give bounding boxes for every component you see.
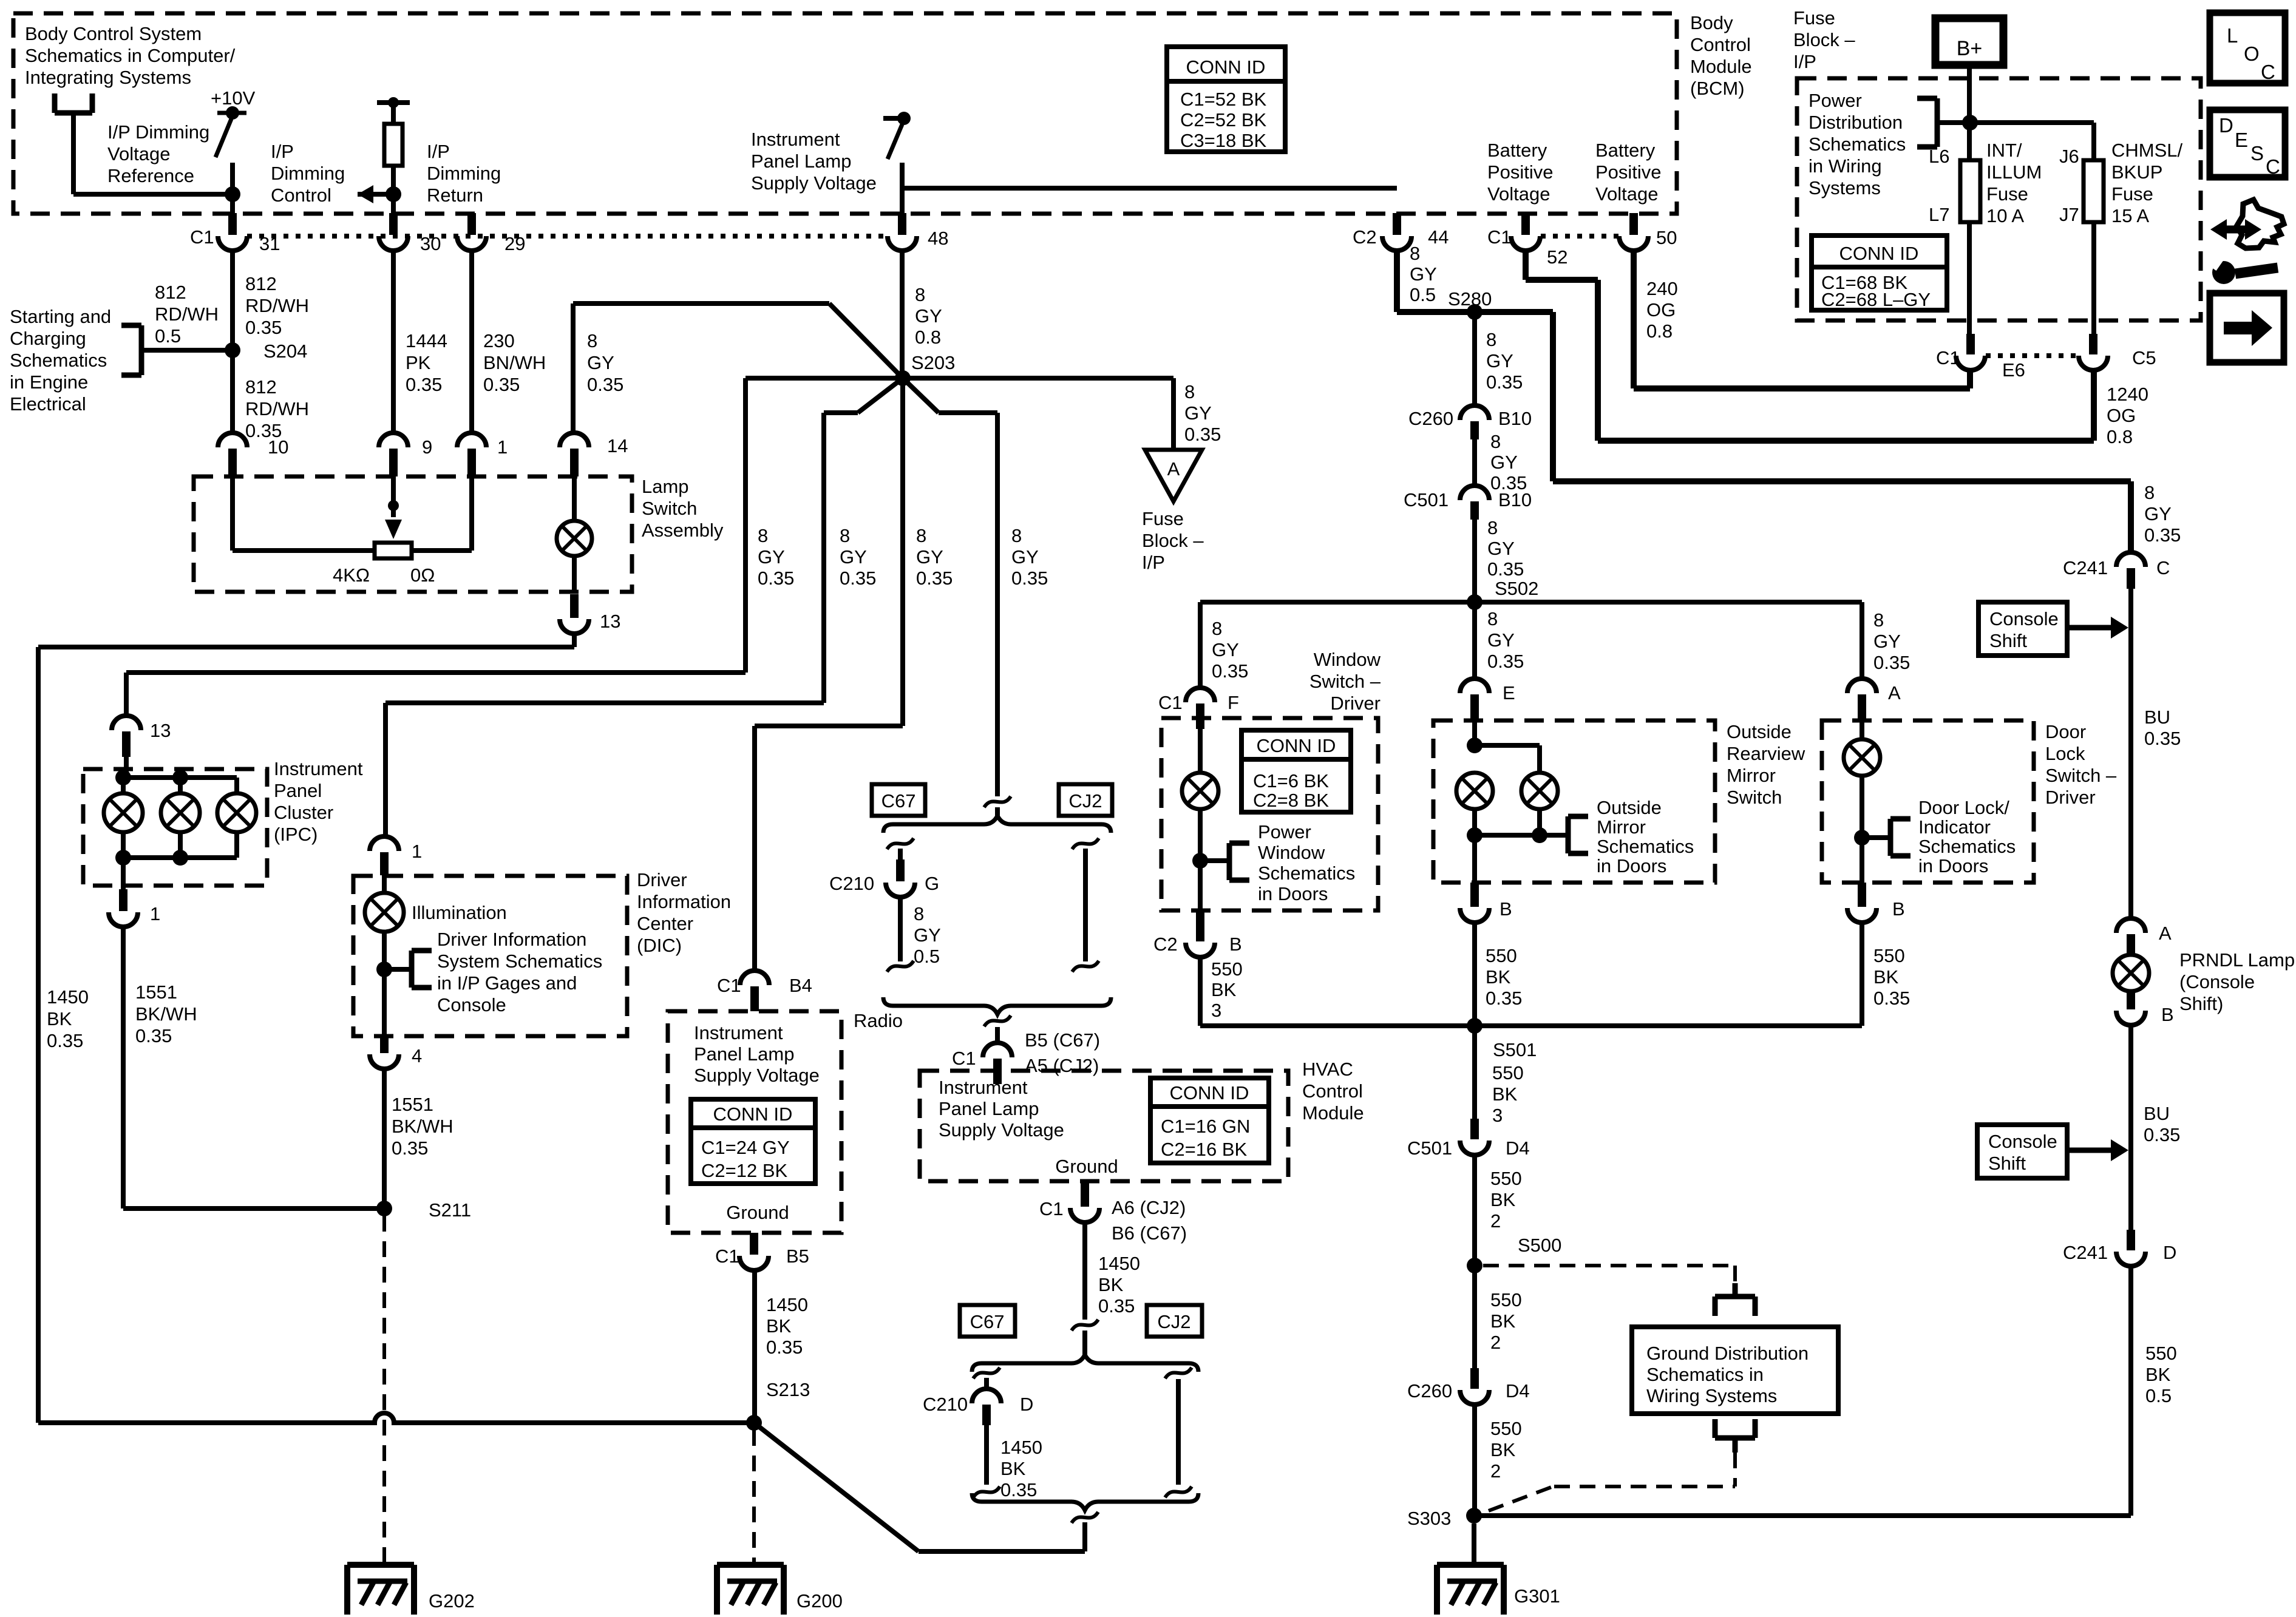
svg-text:Fuse: Fuse bbox=[1986, 183, 2028, 205]
svg-text:C210: C210 bbox=[829, 873, 874, 894]
svg-text:Fuse: Fuse bbox=[2111, 183, 2153, 205]
svg-text:Rearview: Rearview bbox=[1727, 743, 1805, 764]
svg-text:GY: GY bbox=[1212, 639, 1239, 660]
svg-text:0.8: 0.8 bbox=[1646, 320, 1673, 342]
svg-text:1: 1 bbox=[150, 903, 160, 924]
svg-text:RD/WH: RD/WH bbox=[155, 303, 219, 325]
svg-text:B6 (C67): B6 (C67) bbox=[1112, 1222, 1187, 1244]
svg-text:C: C bbox=[2156, 557, 2170, 578]
svg-text:Panel Lamp: Panel Lamp bbox=[694, 1043, 794, 1065]
svg-text:Control: Control bbox=[1302, 1080, 1363, 1102]
svg-text:Integrating Systems: Integrating Systems bbox=[25, 67, 191, 88]
svg-text:Block –: Block – bbox=[1142, 530, 1204, 551]
svg-text:C1: C1 bbox=[715, 1246, 739, 1267]
svg-text:0.35: 0.35 bbox=[406, 374, 442, 395]
svg-text:Switch –: Switch – bbox=[1309, 671, 1381, 692]
svg-text:0.35: 0.35 bbox=[1873, 652, 1910, 673]
svg-text:GY: GY bbox=[758, 546, 785, 568]
svg-text:Body: Body bbox=[1690, 12, 1733, 33]
svg-text:0.35: 0.35 bbox=[483, 374, 520, 395]
svg-text:I/P: I/P bbox=[427, 141, 450, 162]
svg-text:1: 1 bbox=[497, 436, 508, 458]
svg-text:in Doors: in Doors bbox=[1918, 855, 1988, 876]
svg-text:BK: BK bbox=[1486, 966, 1511, 988]
svg-text:BK/WH: BK/WH bbox=[392, 1116, 453, 1137]
svg-text:812: 812 bbox=[245, 376, 277, 398]
svg-text:L6: L6 bbox=[1929, 146, 1949, 167]
svg-text:in Doors: in Doors bbox=[1597, 855, 1666, 876]
svg-text:C1: C1 bbox=[190, 226, 214, 248]
svg-text:BU: BU bbox=[2144, 707, 2170, 728]
svg-text:8: 8 bbox=[1410, 243, 1420, 264]
svg-text:Fuse: Fuse bbox=[1793, 7, 1835, 29]
svg-text:Shift): Shift) bbox=[2179, 993, 2223, 1014]
svg-text:10 A: 10 A bbox=[1986, 205, 2024, 226]
svg-text:Console: Console bbox=[1988, 1131, 2057, 1152]
svg-text:1444: 1444 bbox=[406, 330, 447, 351]
svg-text:BK: BK bbox=[2145, 1364, 2171, 1385]
svg-text:GY: GY bbox=[1410, 263, 1437, 285]
svg-text:S: S bbox=[2250, 142, 2264, 164]
svg-text:Lamp: Lamp bbox=[642, 476, 689, 497]
svg-text:C1=16 GN: C1=16 GN bbox=[1161, 1116, 1250, 1137]
svg-text:BK: BK bbox=[1098, 1274, 1124, 1295]
svg-text:C241: C241 bbox=[2063, 557, 2108, 578]
svg-text:Control: Control bbox=[271, 185, 331, 206]
svg-text:C1: C1 bbox=[952, 1048, 976, 1069]
svg-text:C1=52 BK: C1=52 BK bbox=[1180, 89, 1267, 110]
svg-text:Return: Return bbox=[427, 185, 483, 206]
svg-text:Panel: Panel bbox=[274, 780, 322, 801]
svg-text:29: 29 bbox=[504, 233, 525, 254]
svg-text:0.35: 0.35 bbox=[840, 568, 876, 589]
svg-text:0Ω: 0Ω bbox=[410, 564, 435, 586]
svg-text:0.35: 0.35 bbox=[2144, 1124, 2180, 1145]
svg-text:1450: 1450 bbox=[1000, 1437, 1042, 1458]
svg-text:HVAC: HVAC bbox=[1302, 1059, 1353, 1080]
svg-text:8: 8 bbox=[1184, 381, 1195, 402]
svg-text:1240: 1240 bbox=[2107, 384, 2148, 405]
svg-text:Switch: Switch bbox=[642, 498, 697, 519]
svg-text:Starting and: Starting and bbox=[10, 306, 111, 327]
svg-text:Illumination: Illumination bbox=[412, 902, 507, 923]
svg-text:C2=68 L–GY: C2=68 L–GY bbox=[1821, 289, 1931, 310]
svg-text:14: 14 bbox=[607, 435, 628, 456]
svg-text:240: 240 bbox=[1646, 278, 1678, 299]
svg-text:Instrument: Instrument bbox=[939, 1077, 1028, 1098]
svg-text:8: 8 bbox=[915, 284, 925, 305]
svg-text:550: 550 bbox=[1492, 1062, 1524, 1083]
svg-text:15 A: 15 A bbox=[2111, 205, 2149, 226]
svg-text:C1: C1 bbox=[1936, 347, 1960, 368]
svg-text:Indicator: Indicator bbox=[1918, 816, 1991, 838]
svg-text:8: 8 bbox=[1011, 525, 1022, 546]
svg-text:L7: L7 bbox=[1929, 204, 1949, 225]
svg-text:Mirror: Mirror bbox=[1597, 816, 1646, 838]
svg-text:Supply Voltage: Supply Voltage bbox=[751, 172, 877, 194]
svg-text:B: B bbox=[2161, 1004, 2174, 1025]
svg-text:52: 52 bbox=[1547, 246, 1567, 268]
svg-text:Information: Information bbox=[637, 891, 731, 912]
svg-text:C210: C210 bbox=[923, 1394, 968, 1415]
svg-text:S500: S500 bbox=[1518, 1235, 1561, 1256]
svg-text:F: F bbox=[1228, 692, 1239, 713]
svg-text:Door Lock/: Door Lock/ bbox=[1918, 797, 2009, 818]
svg-text:B10: B10 bbox=[1498, 489, 1532, 510]
svg-text:S303: S303 bbox=[1407, 1508, 1451, 1529]
svg-text:Window: Window bbox=[1314, 649, 1381, 670]
svg-text:C501: C501 bbox=[1404, 489, 1449, 510]
svg-text:Voltage: Voltage bbox=[1487, 183, 1550, 205]
svg-text:C1: C1 bbox=[1039, 1198, 1064, 1219]
svg-text:GY: GY bbox=[916, 546, 943, 568]
svg-text:0.35: 0.35 bbox=[916, 568, 953, 589]
svg-text:Window: Window bbox=[1258, 842, 1325, 863]
svg-text:GY: GY bbox=[840, 546, 867, 568]
svg-text:Radio: Radio bbox=[854, 1010, 903, 1031]
svg-text:0.35: 0.35 bbox=[1487, 651, 1524, 672]
svg-text:RD/WH: RD/WH bbox=[245, 398, 309, 419]
svg-text:C2: C2 bbox=[1153, 934, 1178, 955]
svg-text:INT/: INT/ bbox=[1986, 140, 2022, 161]
svg-text:C2: C2 bbox=[1353, 226, 1377, 248]
svg-text:Door: Door bbox=[2045, 721, 2086, 742]
svg-text:GY: GY bbox=[1490, 452, 1518, 473]
svg-text:Wiring Systems: Wiring Systems bbox=[1646, 1385, 1777, 1406]
svg-text:Switch –: Switch – bbox=[2045, 765, 2117, 786]
svg-text:0.35: 0.35 bbox=[2144, 524, 2181, 546]
svg-text:Charging: Charging bbox=[10, 328, 86, 349]
svg-text:Mirror: Mirror bbox=[1727, 765, 1776, 786]
svg-text:0.35: 0.35 bbox=[1184, 424, 1221, 445]
svg-text:31: 31 bbox=[259, 233, 280, 254]
svg-text:C1: C1 bbox=[1158, 692, 1183, 713]
svg-text:I/P: I/P bbox=[1793, 51, 1816, 72]
svg-text:C5: C5 bbox=[2132, 347, 2156, 368]
svg-text:2: 2 bbox=[1490, 1332, 1501, 1353]
svg-text:E: E bbox=[1503, 682, 1515, 703]
svg-text:8: 8 bbox=[916, 525, 926, 546]
svg-text:B: B bbox=[1229, 934, 1242, 955]
svg-text:Outside: Outside bbox=[1727, 721, 1792, 742]
svg-text:Schematics in Computer/: Schematics in Computer/ bbox=[25, 45, 236, 66]
svg-text:B5: B5 bbox=[786, 1246, 809, 1267]
svg-text:Control: Control bbox=[1690, 34, 1751, 55]
svg-text:OG: OG bbox=[2107, 405, 2136, 426]
svg-text:0.35: 0.35 bbox=[1011, 568, 1048, 589]
svg-text:Power: Power bbox=[1258, 821, 1311, 842]
svg-text:Schematics: Schematics bbox=[1597, 836, 1694, 857]
svg-text:GY: GY bbox=[1487, 629, 1515, 651]
svg-text:PK: PK bbox=[406, 352, 431, 373]
svg-text:0.35: 0.35 bbox=[1212, 660, 1248, 682]
svg-text:8: 8 bbox=[1487, 608, 1498, 629]
svg-text:0.5: 0.5 bbox=[914, 946, 940, 967]
svg-text:PRNDL Lamp: PRNDL Lamp bbox=[2179, 949, 2295, 971]
svg-text:Dimming: Dimming bbox=[271, 163, 345, 184]
svg-text:0.35: 0.35 bbox=[587, 374, 623, 395]
svg-text:CONN ID: CONN ID bbox=[1839, 243, 1919, 264]
svg-text:GY: GY bbox=[1873, 631, 1901, 652]
svg-text:Module: Module bbox=[1690, 56, 1752, 77]
svg-text:ILLUM: ILLUM bbox=[1986, 161, 2042, 183]
svg-text:Voltage: Voltage bbox=[1595, 183, 1658, 205]
svg-text:0.35: 0.35 bbox=[2144, 728, 2181, 749]
svg-text:D: D bbox=[1020, 1394, 1033, 1415]
svg-text:Instrument: Instrument bbox=[694, 1022, 783, 1043]
svg-text:Power: Power bbox=[1809, 90, 1862, 111]
svg-text:GY: GY bbox=[1011, 546, 1039, 568]
svg-text:2: 2 bbox=[1490, 1460, 1501, 1482]
svg-text:B: B bbox=[1500, 898, 1512, 920]
svg-text:Supply Voltage: Supply Voltage bbox=[694, 1065, 820, 1086]
svg-text:S211: S211 bbox=[429, 1199, 471, 1221]
svg-text:13: 13 bbox=[600, 611, 620, 632]
svg-text:C260: C260 bbox=[1407, 1380, 1452, 1402]
svg-text:Dimming: Dimming bbox=[427, 163, 501, 184]
svg-text:C67: C67 bbox=[970, 1311, 1005, 1332]
svg-text:O: O bbox=[2244, 42, 2260, 65]
svg-text:BK: BK bbox=[1873, 966, 1899, 988]
svg-text:Schematics: Schematics bbox=[1258, 863, 1355, 884]
svg-text:Battery: Battery bbox=[1487, 140, 1547, 161]
svg-text:G: G bbox=[925, 873, 939, 894]
svg-text:D: D bbox=[2219, 114, 2233, 137]
svg-text:1450: 1450 bbox=[1098, 1253, 1140, 1274]
svg-text:A5 (CJ2): A5 (CJ2) bbox=[1025, 1055, 1099, 1076]
svg-text:8: 8 bbox=[1212, 618, 1222, 639]
svg-text:B10: B10 bbox=[1498, 408, 1532, 429]
svg-text:4KΩ: 4KΩ bbox=[333, 564, 370, 586]
svg-text:Voltage: Voltage bbox=[107, 143, 170, 164]
svg-text:BN/WH: BN/WH bbox=[483, 352, 546, 373]
svg-text:0.35: 0.35 bbox=[47, 1030, 83, 1051]
svg-text:Panel Lamp: Panel Lamp bbox=[939, 1098, 1039, 1119]
svg-text:C241: C241 bbox=[2063, 1242, 2108, 1263]
svg-text:G200: G200 bbox=[796, 1590, 843, 1612]
svg-text:Positive: Positive bbox=[1487, 161, 1554, 183]
svg-text:A: A bbox=[2159, 923, 2172, 944]
svg-text:C2=8 BK: C2=8 BK bbox=[1253, 790, 1329, 811]
svg-text:A: A bbox=[1888, 682, 1901, 703]
svg-text:Driver: Driver bbox=[637, 869, 687, 890]
svg-text:Shift: Shift bbox=[1989, 630, 2027, 651]
svg-text:Electrical: Electrical bbox=[10, 393, 86, 415]
svg-text:Supply Voltage: Supply Voltage bbox=[939, 1119, 1064, 1141]
svg-text:D: D bbox=[2163, 1242, 2176, 1263]
svg-text:1551: 1551 bbox=[135, 981, 177, 1003]
svg-text:CONN ID: CONN ID bbox=[1170, 1082, 1249, 1103]
svg-text:C260: C260 bbox=[1408, 408, 1453, 429]
svg-text:BU: BU bbox=[2144, 1103, 2170, 1124]
svg-text:4: 4 bbox=[412, 1045, 422, 1066]
svg-text:8: 8 bbox=[1487, 517, 1498, 538]
svg-text:BK: BK bbox=[1490, 1439, 1516, 1460]
svg-text:550: 550 bbox=[1490, 1168, 1522, 1189]
svg-text:C2=52 BK: C2=52 BK bbox=[1180, 109, 1267, 131]
svg-text:(DIC): (DIC) bbox=[637, 935, 682, 956]
svg-text:550: 550 bbox=[1490, 1289, 1522, 1310]
svg-text:Block –: Block – bbox=[1793, 29, 1855, 50]
svg-text:2: 2 bbox=[1490, 1210, 1501, 1232]
svg-text:Reference: Reference bbox=[107, 165, 194, 186]
svg-text:Positive: Positive bbox=[1595, 161, 1662, 183]
svg-text:I/P: I/P bbox=[271, 141, 294, 162]
svg-text:Schematics: Schematics bbox=[1918, 836, 2016, 857]
svg-text:550: 550 bbox=[1486, 945, 1517, 966]
svg-text:0.35: 0.35 bbox=[1873, 988, 1910, 1009]
svg-text:in I/P Gages and: in I/P Gages and bbox=[437, 972, 577, 994]
svg-text:Ground Distribution: Ground Distribution bbox=[1646, 1343, 1809, 1364]
svg-text:G202: G202 bbox=[429, 1590, 475, 1612]
svg-text:0.8: 0.8 bbox=[2107, 426, 2133, 447]
svg-text:8: 8 bbox=[1873, 609, 1884, 631]
svg-text:3: 3 bbox=[1211, 1000, 1221, 1021]
svg-text:8: 8 bbox=[587, 330, 597, 351]
svg-text:550: 550 bbox=[1490, 1418, 1522, 1439]
svg-text:GY: GY bbox=[914, 924, 941, 946]
svg-text:GY: GY bbox=[1487, 538, 1515, 559]
svg-text:550: 550 bbox=[1873, 945, 1905, 966]
svg-text:I/P Dimming: I/P Dimming bbox=[107, 121, 209, 143]
svg-text:(BCM): (BCM) bbox=[1690, 78, 1745, 99]
svg-text:BK: BK bbox=[1492, 1083, 1518, 1105]
svg-text:9: 9 bbox=[422, 436, 432, 458]
svg-text:Panel Lamp: Panel Lamp bbox=[751, 151, 851, 172]
svg-text:GY: GY bbox=[1486, 350, 1513, 371]
svg-text:L: L bbox=[2227, 24, 2238, 47]
svg-text:A6 (CJ2): A6 (CJ2) bbox=[1112, 1197, 1186, 1218]
svg-text:(IPC): (IPC) bbox=[274, 824, 318, 845]
svg-text:0.35: 0.35 bbox=[766, 1337, 803, 1358]
svg-text:Distribution: Distribution bbox=[1809, 112, 1903, 133]
svg-text:10: 10 bbox=[268, 436, 288, 458]
svg-text:BKUP: BKUP bbox=[2111, 161, 2162, 183]
svg-text:0.5: 0.5 bbox=[155, 325, 181, 347]
svg-text:C1=6 BK: C1=6 BK bbox=[1253, 770, 1329, 792]
svg-text:C67: C67 bbox=[881, 790, 916, 812]
svg-text:S204: S204 bbox=[263, 341, 307, 362]
svg-text:BK: BK bbox=[1211, 979, 1237, 1000]
svg-text:GY: GY bbox=[1184, 402, 1212, 424]
svg-text:1551: 1551 bbox=[392, 1094, 433, 1115]
svg-text:44: 44 bbox=[1428, 226, 1449, 248]
svg-text:0.35: 0.35 bbox=[1487, 558, 1524, 580]
svg-text:230: 230 bbox=[483, 330, 515, 351]
svg-text:0.5: 0.5 bbox=[2145, 1385, 2172, 1406]
svg-text:C1=24 GY: C1=24 GY bbox=[701, 1137, 790, 1158]
svg-text:Assembly: Assembly bbox=[642, 520, 724, 541]
svg-text:D4: D4 bbox=[1506, 1380, 1530, 1402]
svg-text:Systems: Systems bbox=[1809, 177, 1881, 198]
svg-text:8: 8 bbox=[1490, 431, 1501, 452]
svg-text:BK/WH: BK/WH bbox=[135, 1003, 197, 1025]
svg-text:8: 8 bbox=[1486, 329, 1496, 350]
svg-text:Body Control System: Body Control System bbox=[25, 23, 202, 44]
svg-text:Console: Console bbox=[437, 994, 506, 1015]
svg-text:Instrument: Instrument bbox=[751, 129, 840, 150]
svg-text:0.35: 0.35 bbox=[1486, 371, 1523, 393]
svg-text:CJ2: CJ2 bbox=[1157, 1311, 1190, 1332]
svg-text:8: 8 bbox=[758, 525, 768, 546]
svg-text:+10V: +10V bbox=[211, 87, 256, 109]
svg-text:CONN ID: CONN ID bbox=[713, 1103, 793, 1125]
svg-text:C501: C501 bbox=[1407, 1137, 1452, 1159]
svg-text:J6: J6 bbox=[2059, 146, 2079, 167]
svg-text:Cluster: Cluster bbox=[274, 802, 333, 823]
svg-text:Battery: Battery bbox=[1595, 140, 1656, 161]
svg-text:BK: BK bbox=[766, 1315, 792, 1337]
svg-text:C2=12 BK: C2=12 BK bbox=[701, 1160, 788, 1181]
svg-text:1: 1 bbox=[412, 841, 422, 862]
svg-text:0.8: 0.8 bbox=[915, 327, 941, 348]
svg-text:Driver: Driver bbox=[1330, 693, 1381, 714]
svg-text:0.35: 0.35 bbox=[1486, 988, 1522, 1009]
svg-text:in Doors: in Doors bbox=[1258, 883, 1328, 904]
svg-text:812: 812 bbox=[155, 282, 186, 303]
svg-text:Module: Module bbox=[1302, 1102, 1364, 1124]
svg-text:E6: E6 bbox=[2002, 359, 2025, 381]
svg-text:Center: Center bbox=[637, 913, 693, 934]
svg-text:812: 812 bbox=[245, 273, 277, 294]
svg-text:Schematics: Schematics bbox=[10, 350, 107, 371]
svg-text:GY: GY bbox=[915, 305, 942, 327]
svg-text:S502: S502 bbox=[1495, 578, 1538, 599]
svg-text:BK: BK bbox=[1000, 1458, 1026, 1479]
svg-text:J7: J7 bbox=[2059, 204, 2079, 225]
svg-text:CONN ID: CONN ID bbox=[1257, 735, 1336, 756]
svg-text:OG: OG bbox=[1646, 299, 1676, 320]
svg-text:CJ2: CJ2 bbox=[1068, 790, 1102, 812]
svg-text:Driver Information: Driver Information bbox=[437, 929, 586, 950]
svg-text:13: 13 bbox=[150, 720, 171, 741]
svg-text:System Schematics: System Schematics bbox=[437, 951, 602, 972]
svg-text:Schematics: Schematics bbox=[1809, 134, 1906, 155]
svg-text:C1: C1 bbox=[1487, 226, 1512, 248]
svg-text:550: 550 bbox=[2145, 1343, 2177, 1364]
svg-text:0.35: 0.35 bbox=[758, 568, 794, 589]
svg-text:0.35: 0.35 bbox=[135, 1025, 172, 1046]
svg-text:RD/WH: RD/WH bbox=[245, 295, 309, 316]
svg-text:CHMSL/: CHMSL/ bbox=[2111, 140, 2183, 161]
svg-text:CONN ID: CONN ID bbox=[1186, 56, 1266, 78]
svg-text:550: 550 bbox=[1211, 958, 1243, 980]
svg-text:BK: BK bbox=[47, 1008, 72, 1029]
svg-text:0.35: 0.35 bbox=[245, 317, 282, 338]
svg-text:B4: B4 bbox=[789, 975, 812, 996]
svg-text:S213: S213 bbox=[766, 1379, 810, 1400]
svg-text:0.5: 0.5 bbox=[1410, 284, 1436, 305]
svg-text:B5 (C67): B5 (C67) bbox=[1025, 1029, 1100, 1051]
svg-text:30: 30 bbox=[420, 233, 441, 254]
svg-text:A: A bbox=[1167, 458, 1180, 480]
svg-text:C3=18 BK: C3=18 BK bbox=[1180, 130, 1267, 151]
svg-text:Schematics in: Schematics in bbox=[1646, 1364, 1764, 1385]
svg-text:in Wiring: in Wiring bbox=[1809, 155, 1882, 177]
svg-text:8: 8 bbox=[2144, 482, 2155, 503]
svg-text:C: C bbox=[2261, 61, 2275, 83]
svg-text:E: E bbox=[2235, 129, 2248, 151]
svg-text:0.35: 0.35 bbox=[1000, 1479, 1037, 1500]
svg-text:S203: S203 bbox=[911, 352, 955, 373]
svg-text:Outside: Outside bbox=[1597, 797, 1662, 818]
svg-text:C2=16 BK: C2=16 BK bbox=[1161, 1139, 1248, 1160]
svg-text:G301: G301 bbox=[1514, 1585, 1560, 1607]
svg-text:0.35: 0.35 bbox=[392, 1137, 428, 1159]
svg-text:(Console: (Console bbox=[2179, 971, 2255, 992]
svg-text:in Engine: in Engine bbox=[10, 371, 88, 393]
svg-text:I/P: I/P bbox=[1142, 552, 1165, 573]
